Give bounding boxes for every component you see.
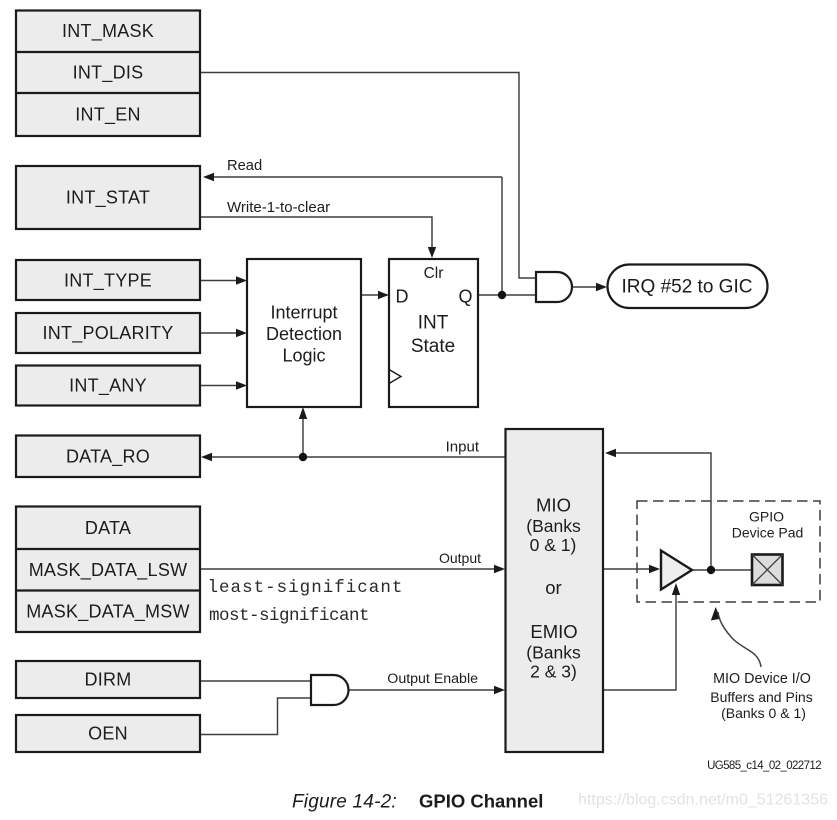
- svg-text:2 & 3): 2 & 3): [530, 662, 577, 682]
- svg-text:INT_EN: INT_EN: [75, 105, 141, 126]
- svg-text:DATA: DATA: [85, 518, 131, 538]
- svg-text:Buffers and Pins: Buffers and Pins: [710, 689, 812, 705]
- svg-text:Output: Output: [439, 550, 481, 566]
- svg-text:Figure 14-2:: Figure 14-2:: [292, 792, 397, 813]
- svg-text:UG585_c14_02_022712: UG585_c14_02_022712: [707, 760, 821, 772]
- svg-text:Interrupt: Interrupt: [270, 303, 337, 323]
- svg-text:most-significant: most-significant: [209, 606, 369, 626]
- svg-text:OEN: OEN: [88, 724, 128, 744]
- svg-text:Read: Read: [227, 158, 262, 174]
- svg-text:INT_TYPE: INT_TYPE: [64, 271, 152, 292]
- svg-text:INT_ANY: INT_ANY: [69, 376, 147, 397]
- svg-text:https://blog.csdn.net/m0_51261: https://blog.csdn.net/m0_51261356: [578, 792, 828, 809]
- svg-text:Write-1-to-clear: Write-1-to-clear: [227, 199, 330, 216]
- svg-text:MASK_DATA_MSW: MASK_DATA_MSW: [26, 602, 190, 623]
- svg-text:D: D: [396, 287, 409, 307]
- svg-text:(Banks: (Banks: [526, 643, 581, 663]
- svg-text:(Banks: (Banks: [526, 516, 581, 536]
- svg-text:Output Enable: Output Enable: [387, 671, 478, 687]
- svg-text:INT: INT: [418, 313, 449, 334]
- svg-text:INT_STAT: INT_STAT: [66, 188, 150, 209]
- svg-text:0 & 1): 0 & 1): [530, 535, 577, 555]
- svg-text:DIRM: DIRM: [85, 670, 132, 690]
- svg-text:or: or: [545, 577, 561, 598]
- svg-text:least-significant: least-significant: [208, 578, 404, 598]
- svg-text:(Banks 0 & 1): (Banks 0 & 1): [721, 705, 806, 721]
- svg-text:GPIO: GPIO: [749, 509, 784, 525]
- svg-text:Device Pad: Device Pad: [732, 525, 804, 541]
- svg-text:State: State: [411, 336, 455, 357]
- svg-text:Logic: Logic: [282, 346, 325, 366]
- svg-text:Detection: Detection: [266, 324, 342, 344]
- svg-text:MASK_DATA_LSW: MASK_DATA_LSW: [29, 560, 188, 581]
- svg-text:IRQ #52 to GIC: IRQ #52 to GIC: [622, 277, 753, 298]
- svg-text:MIO Device I/O: MIO Device I/O: [713, 671, 811, 687]
- svg-text:INT_POLARITY: INT_POLARITY: [42, 323, 173, 344]
- svg-text:GPIO Channel: GPIO Channel: [419, 791, 543, 812]
- svg-text:DATA_RO: DATA_RO: [66, 447, 150, 468]
- svg-text:Clr: Clr: [424, 265, 444, 282]
- svg-text:INT_MASK: INT_MASK: [62, 21, 154, 42]
- svg-text:Q: Q: [458, 287, 472, 307]
- svg-text:Input: Input: [446, 439, 480, 456]
- svg-text:EMIO: EMIO: [530, 621, 577, 642]
- svg-text:INT_DIS: INT_DIS: [73, 63, 144, 84]
- svg-text:MIO: MIO: [536, 495, 571, 516]
